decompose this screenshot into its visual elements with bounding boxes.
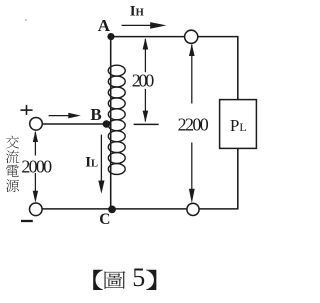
- dimension 2000 line lower: [34, 173, 36, 198]
- minus sign: [21, 220, 33, 222]
- wire top A to right corner: [111, 36, 238, 38]
- terminal top-mid: [185, 30, 198, 43]
- wire bottom: [36, 208, 238, 210]
- dimension 200 arrowhead down: [143, 111, 149, 123]
- dimension 2000 arrowhead down: [33, 191, 38, 203]
- svg-text:2200: 2200: [178, 115, 209, 135]
- svg-text:A: A: [98, 16, 111, 35]
- faint speck: [25, 19, 27, 21]
- caption left bracket: [93, 270, 103, 290]
- vertical label jiao: [6, 136, 19, 149]
- svg-text:C: C: [99, 211, 110, 228]
- wire B feed: [36, 123, 106, 125]
- dimension 2200 line upper: [191, 45, 193, 104]
- vertical label yuan: [6, 179, 19, 192]
- terminal lower-left: [30, 203, 43, 216]
- wire vertical A-B-C: [110, 37, 112, 209]
- svg-text:B: B: [90, 105, 101, 124]
- wire right side lower: [237, 148, 239, 209]
- svg-text:2000: 2000: [21, 157, 52, 177]
- vertical label dian: [6, 165, 19, 177]
- node C: [108, 206, 116, 214]
- arrow IH: [122, 24, 152, 26]
- dimension 200 line upper: [144, 39, 146, 72]
- dimension 200 line lower: [144, 89, 146, 122]
- dimension 2000 line upper: [34, 132, 36, 156]
- svg-text:5: 5: [132, 263, 145, 292]
- arrow into B: [49, 115, 70, 117]
- plus sign: [20, 105, 32, 115]
- vertical label liu: [6, 150, 19, 163]
- dimension 2200 arrowhead up: [189, 44, 195, 56]
- dimension 2200 arrowhead down: [189, 189, 195, 203]
- caption tu: [105, 271, 126, 289]
- load box PL: [220, 100, 257, 149]
- tick at B level: [134, 123, 159, 125]
- autotransformer winding coil: [108, 65, 125, 174]
- node B: [103, 120, 111, 128]
- node A: [107, 33, 114, 40]
- wire right side upper: [237, 36, 239, 100]
- dimension 200 arrowhead up: [143, 38, 149, 50]
- svg-text:200: 200: [132, 71, 155, 91]
- caption right bracket: [146, 270, 156, 290]
- dimension 2000 arrowhead up: [33, 131, 38, 142]
- terminal bottom-mid: [187, 203, 199, 215]
- terminal upper-left: [30, 118, 43, 131]
- arrow IL: [100, 135, 102, 182]
- dimension 2200 line lower: [191, 143, 193, 198]
